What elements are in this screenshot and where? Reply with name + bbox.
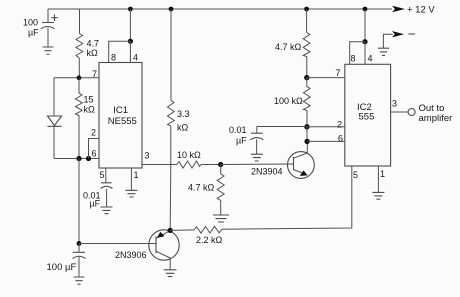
svg-text:2.2 kΩ: 2.2 kΩ bbox=[196, 235, 223, 245]
svg-text:3.3: 3.3 bbox=[177, 109, 190, 119]
minus dash label bbox=[408, 33, 415, 35]
wire IC2 pin2 bbox=[307, 126, 345, 128]
svg-text:kΩ: kΩ bbox=[87, 48, 99, 58]
ground under IC2 pin1 bbox=[372, 192, 384, 199]
svg-text:7: 7 bbox=[92, 69, 97, 79]
capacitor C1 100uF plates bbox=[41, 23, 55, 29]
wire IC2 pin6 bbox=[307, 140, 345, 142]
svg-text:8: 8 bbox=[351, 54, 356, 64]
node rail-3.3k bbox=[169, 7, 174, 12]
svg-text:2: 2 bbox=[91, 128, 96, 138]
ground under C3 bbox=[101, 207, 113, 214]
wire Q1 base bbox=[79, 243, 156, 245]
node IC2 pin6 junction bbox=[304, 139, 309, 144]
node IC1 pins 8/4 bbox=[128, 39, 133, 44]
svg-text:100: 100 bbox=[23, 18, 38, 28]
svg-text:6: 6 bbox=[92, 149, 97, 159]
svg-text:3: 3 bbox=[145, 151, 150, 161]
resistor R3 3.3k zigzag bbox=[168, 100, 175, 126]
resistor R7 4.7k zigzag bbox=[303, 32, 310, 56]
transistor Q1 emitter bbox=[157, 231, 171, 238]
wire IC2 pin4 bbox=[364, 42, 366, 65]
ground under C4 bbox=[251, 154, 263, 161]
transistor Q2 emitter bbox=[294, 170, 308, 176]
+12V arrow bbox=[392, 6, 405, 13]
wire IC2 pin8 bbox=[350, 42, 365, 65]
wire 10k to node bbox=[201, 164, 221, 166]
resistor R5 4.7k lead bbox=[220, 165, 222, 216]
wire IC1 pin4 bbox=[129, 41, 131, 62]
svg-text:IC1: IC1 bbox=[113, 105, 128, 116]
ground under C1 bbox=[43, 47, 54, 54]
transistor Q2 2N3904 circle bbox=[288, 152, 315, 179]
svg-text:0.01: 0.01 bbox=[229, 125, 247, 135]
capacitor C2 100uF lead bbox=[78, 244, 80, 278]
transistor Q1 emitter arrow bbox=[157, 232, 165, 238]
wire IC1 pin1 bbox=[130, 168, 132, 190]
svg-text:4: 4 bbox=[133, 53, 138, 63]
ground under IC1 pin1 bbox=[126, 190, 138, 197]
resistor R1 4.7k lead bbox=[78, 9, 80, 78]
capacitor C1 plus sign bbox=[51, 15, 57, 22]
terminal output circle bbox=[408, 109, 415, 116]
node rail-IC2 bbox=[363, 7, 368, 12]
wire 2.2k to IC2 pin5 bbox=[222, 166, 352, 229]
transistor Q1 collector bbox=[157, 252, 171, 270]
node IC2 pin2 junction bbox=[304, 124, 309, 129]
wire left node down to 100uF bbox=[78, 159, 80, 244]
wire pin2 riser bbox=[89, 139, 100, 159]
svg-text:100 kΩ: 100 kΩ bbox=[274, 96, 303, 106]
svg-text:3: 3 bbox=[392, 99, 397, 109]
svg-text:kΩ: kΩ bbox=[177, 123, 189, 133]
svg-text:1: 1 bbox=[380, 169, 385, 179]
transistor Q2 base bar bbox=[293, 157, 295, 170]
svg-text:4.7: 4.7 bbox=[87, 39, 100, 49]
svg-text:µF: µF bbox=[90, 199, 101, 209]
wire node to Q2 base bbox=[221, 163, 294, 166]
op-amp U1 IC1 box bbox=[99, 63, 142, 169]
transistor Q2 collector bbox=[294, 141, 308, 158]
wire 0.01uF tap bbox=[257, 126, 307, 128]
svg-text:555: 555 bbox=[359, 112, 375, 123]
svg-text:15: 15 bbox=[84, 95, 94, 105]
IC2 riser from rail bbox=[364, 9, 366, 42]
node IC2 pins 8/4 bbox=[362, 39, 367, 44]
wire IC1 pin3 stub bbox=[142, 164, 177, 166]
node 100uF/base junction bbox=[77, 241, 82, 246]
transistor Q1 2N3906 circle bbox=[149, 230, 179, 260]
capacitor C3 0.01uF plates bbox=[101, 183, 113, 189]
resistor R8 100k zigzag bbox=[303, 78, 310, 127]
node 10k/4.7k junction bbox=[218, 162, 223, 167]
node rail-IC1 bbox=[128, 7, 133, 12]
op-amp U2 IC2 box bbox=[345, 64, 391, 166]
wire pin6 node bbox=[54, 158, 99, 160]
capacitor C4 0.01uF lead bbox=[256, 127, 258, 155]
node diode-15k junction bbox=[76, 156, 81, 161]
wire IC2 pin1 bbox=[377, 166, 379, 192]
node pin2 riser junction bbox=[86, 156, 91, 161]
IC1 riser from rail bbox=[129, 9, 131, 41]
transistor Q1 base bar bbox=[155, 237, 157, 254]
svg-text:5: 5 bbox=[353, 170, 358, 180]
transistor Q2 emitter arrow bbox=[300, 170, 308, 176]
svg-text:4: 4 bbox=[368, 54, 373, 64]
svg-text:4.7 kΩ: 4.7 kΩ bbox=[275, 42, 302, 52]
svg-text:2N3906: 2N3906 bbox=[115, 250, 147, 260]
resistor R2 15k zigzag bbox=[76, 78, 83, 159]
wire emitter node to 2.2k bbox=[170, 229, 194, 232]
wire IC1 pin8 bbox=[109, 41, 131, 62]
svg-text:4.7 kΩ: 4.7 kΩ bbox=[188, 183, 215, 193]
wire pin7 node bbox=[54, 77, 99, 79]
capacitor C4 plates bbox=[250, 133, 263, 140]
svg-text:1: 1 bbox=[134, 170, 139, 180]
diode D1 bbox=[48, 116, 62, 126]
svg-text:NE555: NE555 bbox=[108, 116, 137, 127]
svg-text:+ 12 V: + 12 V bbox=[407, 5, 435, 16]
svg-text:5: 5 bbox=[100, 170, 105, 180]
node 4.7k/100k junction bbox=[304, 75, 309, 80]
svg-text:2N3904: 2N3904 bbox=[251, 167, 283, 177]
svg-text:kΩ: kΩ bbox=[84, 105, 96, 115]
wire 3.3k node down to Q1 emitter bbox=[169, 165, 172, 231]
svg-text:8: 8 bbox=[111, 53, 116, 63]
wire top +12V rail bbox=[48, 8, 392, 10]
svg-text:100 µF: 100 µF bbox=[47, 262, 77, 273]
ground under C2 bbox=[74, 277, 85, 284]
svg-text:7: 7 bbox=[336, 68, 341, 78]
svg-text:2: 2 bbox=[337, 120, 342, 130]
node Q1 emitter / 2.2k bbox=[168, 228, 173, 233]
ground under R5 bbox=[213, 215, 229, 222]
wire IC2 pin7 bbox=[307, 77, 345, 79]
resistor R7 4.7k lead bbox=[306, 9, 308, 78]
svg-text:µF: µF bbox=[28, 28, 39, 38]
svg-text:6: 6 bbox=[338, 134, 343, 144]
wire IC1 pin5 bbox=[105, 168, 107, 183]
diode D1 branch wire bbox=[53, 78, 55, 159]
resistor R3 3.3k lead bbox=[170, 9, 172, 165]
resistor R4 10k zigzag bbox=[177, 161, 201, 168]
resistor R6 2.2k zigzag bbox=[194, 226, 222, 233]
capacitor C3 lead bbox=[106, 189, 108, 207]
resistor R1 4.7k zigzag bbox=[76, 34, 83, 59]
ground at minus terminal bbox=[378, 48, 389, 55]
svg-text:10 kΩ: 10 kΩ bbox=[177, 150, 201, 160]
node rail-4.7k bbox=[304, 7, 309, 12]
node pin7 bbox=[77, 75, 82, 80]
resistor R5 4.7k zigzag bbox=[217, 174, 224, 201]
svg-text:amplifer: amplifer bbox=[419, 113, 453, 124]
capacitor C2 plates bbox=[73, 252, 86, 258]
wire IC2 pin3 bbox=[391, 111, 409, 113]
svg-text:µF: µF bbox=[236, 136, 247, 146]
ground under Q1 bbox=[164, 270, 177, 277]
capacitor C1 100uF lead bbox=[47, 9, 49, 47]
minus terminal wire bbox=[383, 34, 392, 48]
wire pin2-pin6 link bbox=[306, 127, 308, 142]
minus terminal arrow bbox=[392, 31, 404, 37]
